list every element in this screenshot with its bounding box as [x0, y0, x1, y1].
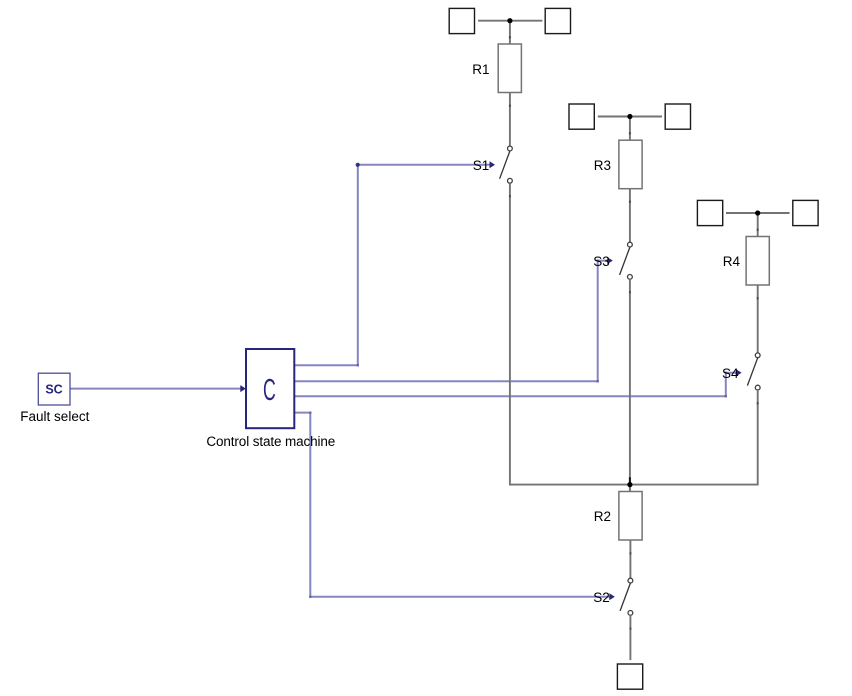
node wire1 corner dot	[356, 163, 360, 167]
arrowhead S2	[609, 593, 615, 600]
wire	[629, 117, 631, 141]
wire	[629, 615, 631, 660]
wire tick	[509, 105, 511, 108]
wire C to S3	[294, 261, 608, 382]
wire C to S2	[294, 413, 610, 597]
svg-text:S4: S4	[722, 366, 739, 381]
node junction N1	[507, 18, 512, 23]
resistor R1	[498, 44, 521, 93]
svg-text:R3: R3	[594, 158, 611, 173]
wire tick	[629, 201, 631, 204]
resistor R3	[619, 140, 642, 189]
wire	[726, 212, 790, 214]
svg-text:R1: R1	[472, 62, 489, 77]
wire	[509, 21, 511, 44]
wire	[757, 285, 759, 353]
label C	[263, 373, 276, 407]
block box B3L	[697, 200, 722, 225]
block box B2L	[569, 104, 594, 129]
node junction N4	[627, 482, 632, 487]
wire	[629, 189, 631, 243]
switch S2	[620, 578, 633, 615]
wire C to S4	[294, 373, 737, 397]
wire C to S1	[294, 165, 490, 366]
wire tick	[757, 229, 759, 232]
wire end overlap (dark)	[629, 477, 631, 484]
svg-text:S1: S1	[473, 158, 490, 173]
wire tick	[757, 402, 759, 405]
block box B3R	[793, 200, 818, 225]
svg-text:SC: SC	[45, 382, 62, 396]
arrowhead S4	[736, 369, 742, 376]
wire	[478, 20, 542, 22]
wire corner joints	[309, 260, 727, 598]
arrowhead into C	[240, 385, 246, 392]
wire tick	[509, 195, 511, 198]
resistor R4	[746, 237, 769, 286]
svg-text:S2: S2	[593, 590, 610, 605]
svg-text:R4: R4	[723, 254, 741, 269]
svg-text:C: C	[263, 373, 276, 407]
block box B4	[617, 664, 642, 689]
wire tick	[629, 552, 631, 555]
wire	[509, 183, 511, 484]
block SC	[38, 373, 70, 405]
block box B2R	[665, 104, 690, 129]
wire	[598, 116, 662, 118]
block box B1L	[449, 8, 474, 33]
resistor R2	[619, 492, 642, 541]
wire SC to C	[70, 388, 242, 390]
arrowhead S1	[490, 161, 496, 168]
wire tick	[629, 132, 631, 135]
wire tick	[629, 291, 631, 294]
wire	[509, 93, 511, 147]
node junction N3	[755, 210, 760, 215]
block C	[246, 349, 294, 428]
wire	[757, 390, 759, 485]
arrowhead S3	[607, 257, 613, 264]
svg-text:S3: S3	[593, 254, 610, 269]
switch S3	[620, 242, 633, 279]
wire	[757, 213, 759, 237]
node junction N2	[627, 114, 632, 119]
wire tick	[629, 628, 631, 631]
block box B1R	[545, 8, 570, 33]
wire	[629, 485, 631, 492]
wire tick	[757, 297, 759, 300]
svg-text:Fault select: Fault select	[20, 409, 89, 424]
wire	[509, 484, 759, 486]
wire	[629, 279, 631, 491]
wire	[629, 540, 631, 578]
switch S4	[747, 353, 760, 390]
switch S1	[500, 146, 513, 183]
svg-text:Control state machine: Control state machine	[206, 434, 335, 449]
svg-text:R2: R2	[594, 509, 611, 524]
wire tick	[509, 36, 511, 39]
